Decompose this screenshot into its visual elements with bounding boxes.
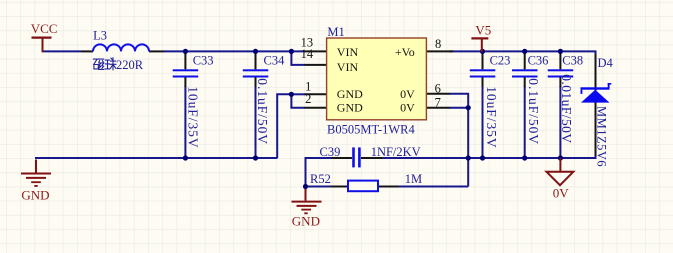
svg-text:10uF/35V: 10uF/35V xyxy=(186,86,201,148)
svg-text:D4: D4 xyxy=(598,56,614,70)
svg-text:M1: M1 xyxy=(327,25,344,39)
svg-text:MM1Z5V6: MM1Z5V6 xyxy=(594,106,608,167)
svg-text:7: 7 xyxy=(435,96,441,110)
svg-text:2: 2 xyxy=(305,92,311,106)
svg-text:14: 14 xyxy=(301,47,314,61)
svg-text:C23: C23 xyxy=(490,54,511,68)
svg-text:220R: 220R xyxy=(116,58,144,72)
svg-text:C36: C36 xyxy=(528,54,549,68)
svg-text:0.1uF/50V: 0.1uF/50V xyxy=(526,78,541,145)
svg-text:GND: GND xyxy=(337,87,363,101)
svg-text:1NF/2KV: 1NF/2KV xyxy=(371,145,421,159)
svg-text:C33: C33 xyxy=(193,54,214,68)
svg-text:0.01uF/50V: 0.01uF/50V xyxy=(559,74,574,143)
svg-text:VIN: VIN xyxy=(337,45,359,59)
svg-text:GND: GND xyxy=(337,101,363,115)
svg-text:GND: GND xyxy=(292,214,320,229)
svg-text:0V: 0V xyxy=(553,186,570,201)
svg-text:B0505MT-1WR4: B0505MT-1WR4 xyxy=(327,123,415,137)
svg-text:V5: V5 xyxy=(475,23,491,38)
svg-text:C38: C38 xyxy=(562,53,583,67)
svg-text:C39: C39 xyxy=(320,145,341,159)
svg-text:0.1uF/50V: 0.1uF/50V xyxy=(255,78,270,145)
svg-text:VIN: VIN xyxy=(337,60,359,74)
svg-text:0V: 0V xyxy=(400,101,415,115)
svg-text:C34: C34 xyxy=(264,54,286,68)
svg-text:GND: GND xyxy=(21,187,49,202)
svg-text:L3: L3 xyxy=(93,29,107,43)
svg-text:0V: 0V xyxy=(400,87,415,101)
svg-text:6: 6 xyxy=(435,81,441,95)
svg-text:+Vo: +Vo xyxy=(395,45,415,59)
svg-text:10uF/35V: 10uF/35V xyxy=(484,86,499,148)
svg-text:1M: 1M xyxy=(405,172,422,186)
svg-text:R52: R52 xyxy=(310,172,331,186)
svg-text:VCC: VCC xyxy=(31,21,58,36)
svg-text:8: 8 xyxy=(435,37,441,51)
